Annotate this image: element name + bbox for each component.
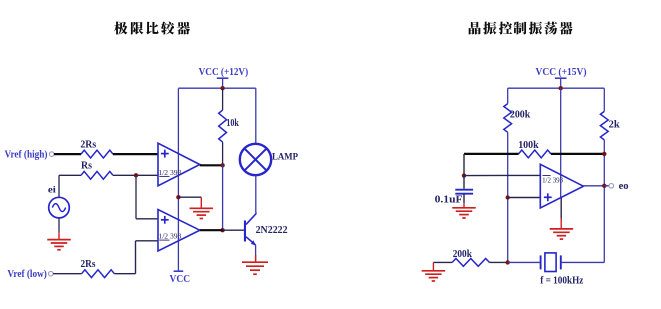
svg-text:100k: 100k — [518, 140, 539, 151]
svg-text:0.1uF: 0.1uF — [435, 195, 463, 206]
svg-text:10k: 10k — [226, 118, 239, 129]
svg-text:VCC (+15V): VCC (+15V) — [536, 67, 587, 78]
svg-text:2k: 2k — [609, 120, 620, 131]
svg-text:1/2 393: 1/2 393 — [542, 176, 563, 184]
svg-text:200k: 200k — [453, 249, 472, 260]
svg-text:f = 100kHz: f = 100kHz — [540, 275, 584, 286]
svg-text:VCC: VCC — [170, 274, 191, 285]
svg-text:2Rs: 2Rs — [81, 259, 96, 270]
svg-text:eo: eo — [619, 181, 629, 192]
svg-text:Rs: Rs — [81, 161, 92, 172]
svg-text:LAMP: LAMP — [272, 152, 298, 162]
svg-text:Vref (high): Vref (high) — [5, 149, 48, 160]
svg-text:ei: ei — [48, 186, 56, 196]
svg-text:2N2222: 2N2222 — [256, 225, 288, 236]
svg-text:VCC (+12V): VCC (+12V) — [199, 67, 249, 78]
svg-text:Vref (low): Vref (low) — [7, 269, 47, 280]
svg-text:1/2 393: 1/2 393 — [158, 233, 181, 241]
svg-text:200k: 200k — [510, 110, 531, 121]
svg-text:2Rs: 2Rs — [80, 139, 96, 150]
svg-text:1/2 393: 1/2 393 — [158, 169, 181, 177]
